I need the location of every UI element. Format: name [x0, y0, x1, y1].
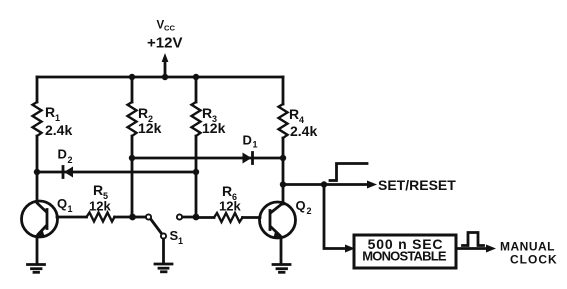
svg-text:MANUAL: MANUAL — [500, 240, 555, 254]
label D2 — [58, 147, 73, 166]
svg-text:2.4k: 2.4k — [290, 123, 317, 139]
node: R6 / R3 junction — [193, 214, 200, 221]
power Vcc arrow — [162, 53, 169, 62]
label R3 — [202, 105, 217, 124]
wire: R4 bottom to Q2 collector node — [282, 138, 285, 204]
label D1 — [243, 133, 258, 150]
wire: Q1 emitter to ground — [36, 237, 39, 264]
node: R3 top rail junction — [193, 74, 199, 80]
wire: R2 bottom down to switch node — [131, 136, 134, 217]
switch S1 left contact — [146, 214, 151, 219]
resistor R4 — [279, 104, 288, 138]
svg-text:SET/RESET: SET/RESET — [378, 177, 456, 193]
svg-text:12k: 12k — [138, 120, 162, 136]
waveform: pulse symbol — [463, 233, 484, 246]
svg-text:12k: 12k — [89, 199, 111, 214]
wire: monostable output — [457, 247, 487, 250]
svg-text:CC: CC — [164, 24, 175, 33]
wire: Q1 base to R5 — [57, 216, 87, 219]
label Q2 — [296, 198, 312, 216]
node: monostable branch junction — [321, 181, 327, 187]
wire: left rail drop to R1 — [36, 77, 39, 102]
diode D1 — [243, 153, 253, 164]
switch S1 blade — [151, 220, 162, 234]
arrow to MANUAL CLOCK — [486, 245, 496, 253]
node: R3 / line B junction — [193, 169, 199, 175]
wire: rail to R2 — [131, 77, 134, 102]
transistor Q2 — [260, 202, 296, 238]
svg-text:D: D — [58, 147, 67, 162]
node: Q2 collector / SET-RESET junction — [280, 181, 286, 187]
label R4 — [289, 106, 304, 125]
resistor R3 — [192, 102, 201, 136]
svg-text:CLOCK: CLOCK — [510, 253, 558, 267]
resistor R1 — [33, 102, 42, 136]
label S1 — [170, 228, 184, 246]
svg-text:R: R — [93, 182, 103, 198]
node: Q1 collector / line B junction — [34, 169, 40, 175]
svg-text:12k: 12k — [219, 199, 241, 214]
wire: S1 pole to ground — [162, 239, 165, 263]
node: R2 top rail junction — [129, 74, 135, 80]
resistor R5 — [87, 213, 115, 222]
arrow to SET/RESET — [367, 181, 377, 189]
label Vcc — [157, 20, 176, 33]
power Vcc stub wire — [164, 60, 167, 77]
svg-text:2: 2 — [307, 206, 312, 216]
wire: branch down to monostable — [324, 185, 346, 249]
label R1 — [45, 104, 60, 123]
svg-text:Q: Q — [296, 198, 306, 213]
wire: R3 bottom down to switch node — [195, 136, 198, 217]
svg-text:2.4k: 2.4k — [45, 122, 72, 138]
svg-text:MONOSTABLE: MONOSTABLE — [362, 249, 447, 264]
wire: R6 to Q2 base — [243, 216, 261, 219]
switch S1 pole contact — [161, 233, 166, 238]
wire: rail to R3 — [195, 77, 198, 102]
node: R4 / line A junction — [280, 155, 286, 161]
wire: S1 right contact to R6 node — [183, 216, 197, 219]
svg-text:2: 2 — [68, 155, 73, 165]
box: 500 n SEC MONOSTABLE — [354, 235, 456, 268]
label Q1 — [57, 196, 73, 214]
ground (S1) — [155, 264, 172, 272]
ground (Q2 emitter) — [273, 265, 290, 273]
wire: right rail drop to R4 — [282, 77, 285, 104]
svg-text:1: 1 — [253, 140, 258, 150]
svg-text:R: R — [222, 183, 232, 199]
wire: junction to R6 — [196, 216, 214, 219]
wire: +12V top rail — [37, 76, 283, 79]
transistor Q1 — [22, 201, 58, 237]
svg-text:Q: Q — [57, 196, 67, 211]
svg-text:12k: 12k — [202, 120, 226, 136]
node: R2 / line A junction — [129, 155, 135, 161]
svg-text:R: R — [45, 104, 55, 120]
wire: junction to S1 left contact — [133, 216, 146, 219]
svg-text:1: 1 — [68, 204, 73, 214]
resistor R2 — [128, 102, 137, 136]
wire: line A cross-coupling (R2 bottom to D1 to Q2 collector) — [132, 157, 283, 160]
wire: line B cross-coupling (Q1 collector to D2 to R3 bottom) — [37, 171, 196, 174]
wire: R5 to switch node — [115, 216, 133, 219]
wire: Q2 collector to SET/RESET arrow — [283, 183, 368, 186]
svg-text:+12V: +12V — [147, 35, 182, 52]
node: R5 / R2 / S1 left contact junction — [129, 214, 136, 221]
label R2 — [138, 105, 153, 124]
svg-text:R: R — [289, 106, 299, 122]
ground (Q1 emitter) — [28, 265, 45, 273]
arrow into monostable — [345, 245, 355, 253]
wire: R1 bottom to Q1 collector — [36, 136, 39, 202]
switch S1 right contact — [177, 214, 182, 219]
node: Vcc rail junction — [162, 74, 168, 80]
label R6 — [222, 183, 237, 202]
svg-text:R: R — [202, 105, 212, 121]
wire: Q2 emitter to ground — [280, 238, 283, 264]
diode D2 — [63, 167, 73, 178]
svg-text:D: D — [243, 133, 252, 148]
label R5 — [93, 182, 108, 201]
waveform: step symbol — [330, 164, 367, 181]
svg-text:1: 1 — [178, 236, 183, 246]
resistor R6 — [214, 213, 243, 222]
svg-text:R: R — [138, 105, 148, 121]
